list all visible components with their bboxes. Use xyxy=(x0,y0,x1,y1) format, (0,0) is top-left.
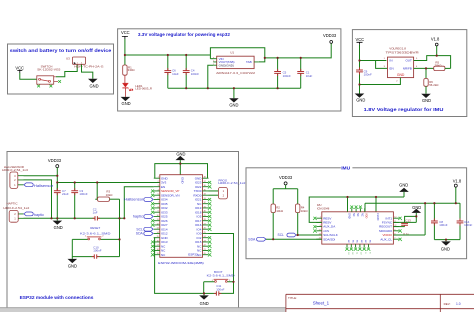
svg-text:GND: GND xyxy=(54,225,63,230)
capacitor C10 100nF xyxy=(72,245,119,258)
connector P3 PROG xyxy=(218,179,245,199)
svg-text:TPS73633DBVR: TPS73633DBVR xyxy=(386,50,420,54)
switch SW1 SK-12D02-VG5 xyxy=(37,65,61,85)
svg-text:NC: NC xyxy=(356,213,359,217)
pin stubs ESP32 left xyxy=(154,178,160,255)
svg-text:GND: GND xyxy=(441,247,450,252)
wire R4 down to SCL xyxy=(297,213,299,235)
svg-text:GND: GND xyxy=(348,213,351,219)
wire GND rail (haptic pin1 to C2) xyxy=(24,217,96,219)
no-connect X marks IMU left xyxy=(313,217,317,233)
net label Hallsensor (connector side) xyxy=(24,183,54,188)
svg-text:GND: GND xyxy=(89,84,98,89)
svg-text:NC: NC xyxy=(364,240,366,244)
svg-text:GND(GND): GND(GND) xyxy=(219,63,234,67)
svg-text:NC: NC xyxy=(352,213,355,217)
svg-text:1uF: 1uF xyxy=(93,211,98,215)
svg-text:SK-12D02-VG5: SK-12D02-VG5 xyxy=(37,67,61,71)
wire VIN stub link xyxy=(210,58,213,60)
wire BOOT left to GND xyxy=(203,282,205,294)
svg-text:100nF: 100nF xyxy=(464,223,472,227)
wire VCC to switch pin1 xyxy=(20,73,37,79)
wire R6 drop xyxy=(425,68,427,78)
ground (1.8V reg left) xyxy=(355,94,366,103)
capacitor C14 100nF xyxy=(457,203,473,239)
wire GND drop (3.3V reg) xyxy=(233,88,235,98)
svg-text:Hallsensor: Hallsensor xyxy=(34,184,54,188)
junction dots (IMU) xyxy=(272,238,274,240)
svg-text:1.8V Voltage regulator for IMU: 1.8V Voltage regulator for IMU xyxy=(364,107,444,113)
svg-text:10kΩ: 10kΩ xyxy=(301,209,309,213)
svg-text:HDR-F-2.54_1x2: HDR-F-2.54_1x2 xyxy=(218,181,245,185)
wire C10 right up to EN vertical xyxy=(119,239,121,256)
net label SDA (chip side) xyxy=(136,232,153,236)
svg-text:GND: GND xyxy=(176,152,185,157)
svg-text:VDD33: VDD33 xyxy=(48,158,62,163)
resistor R3 10k xyxy=(95,182,119,201)
capacitor C11 100nF xyxy=(204,284,225,295)
svg-text:10uF: 10uF xyxy=(306,74,313,78)
wire REGOUT to C13 xyxy=(393,226,404,228)
wire input rail to IN xyxy=(360,60,387,62)
power flag VCC (3.3V reg) xyxy=(121,30,130,39)
svg-text:3.3V voltage regulator for pow: 3.3V voltage regulator for powering esp3… xyxy=(138,32,230,38)
MCU module U2 ESP32-WROOM-32E xyxy=(158,175,204,266)
no-connect X marks under switch xyxy=(37,80,61,87)
wire bottom rail (3.3V reg) xyxy=(168,87,301,89)
wire battery pin2 to GND xyxy=(82,65,93,79)
svg-text:SDA: SDA xyxy=(136,232,144,236)
svg-text:GND: GND xyxy=(412,205,421,210)
regulator U4 TPS73633DBVR xyxy=(384,46,420,82)
svg-text:VDD: VDD xyxy=(365,213,368,218)
ground (3.3V reg) xyxy=(229,98,239,107)
ground (under C8/C14) xyxy=(441,240,451,252)
connector P2 HAPTIC xyxy=(3,202,29,223)
svg-text:GND: GND xyxy=(397,73,405,77)
svg-text:56.2kΩ: 56.2kΩ xyxy=(429,83,439,87)
svg-text:100nF: 100nF xyxy=(191,72,199,76)
wire R6 to GND xyxy=(425,86,427,94)
net port V1.8 (1.8V reg) xyxy=(431,37,440,46)
svg-text:1.0: 1.0 xyxy=(456,302,461,306)
no-connect X marks IMU top xyxy=(350,206,362,209)
svg-text:SDA: SDA xyxy=(248,237,256,241)
wire V1.8 drop xyxy=(436,46,438,56)
wire NR/FB to R5/R6 junction xyxy=(414,67,434,69)
svg-text:GND: GND xyxy=(229,102,238,107)
section box: 3.3V regulator xyxy=(118,29,341,111)
svg-text:Sheet_1: Sheet_1 xyxy=(313,301,330,306)
ground (IMU GND2, flipped) xyxy=(412,205,422,213)
pin stubs ESP32 right xyxy=(203,178,209,255)
svg-text:IN: IN xyxy=(390,59,393,63)
svg-text:GND: GND xyxy=(68,263,77,268)
svg-text:22uF: 22uF xyxy=(62,192,69,196)
sheet edge grey bar xyxy=(0,308,474,312)
svg-text:EN: EN xyxy=(390,67,394,71)
pin stubs IMU top xyxy=(348,208,365,212)
resistor R4 10k xyxy=(296,204,309,213)
red component pin stubs on capacitors xyxy=(57,67,460,293)
section box: 1.8V regulator xyxy=(352,30,466,117)
pushbutton BOOT K2-3.6-6.1_SMD xyxy=(204,270,235,282)
svg-text:NC: NC xyxy=(360,240,362,244)
svg-text:LED-0603_R: LED-0603_R xyxy=(135,87,152,91)
capacitor C6 10uF xyxy=(164,55,179,88)
svg-text:IMU: IMU xyxy=(341,166,350,172)
ground (under LED1) xyxy=(121,97,131,106)
svg-text:100nF: 100nF xyxy=(364,73,372,77)
svg-text:HDR-F-2.54_1x3: HDR-F-2.54_1x3 xyxy=(2,168,28,172)
section box: IMU xyxy=(246,168,467,259)
svg-text:100nF: 100nF xyxy=(79,192,87,196)
connector P1 HALLSENSOR xyxy=(2,165,28,189)
svg-text:VDD33: VDD33 xyxy=(323,33,337,38)
svg-text:100nF: 100nF xyxy=(439,223,447,227)
svg-text:REV:: REV: xyxy=(444,302,451,306)
svg-text:CLKIN: CLKIN xyxy=(376,213,379,221)
wire SDA to chip xyxy=(266,238,322,240)
svg-text:AMS1117-3.3_C347222: AMS1117-3.3_C347222 xyxy=(216,71,255,75)
resistor R1 330 xyxy=(123,65,136,75)
no-connect X marks IMU right xyxy=(398,217,402,241)
svg-text:SCL: SCL xyxy=(278,233,284,237)
svg-text:SDA/SDI: SDA/SDI xyxy=(323,237,335,241)
wire VCC down to C9 and GND xyxy=(359,45,361,70)
net label haptic (connector side) xyxy=(24,212,45,217)
wire OUT up over to R5 right xyxy=(414,56,451,69)
resistor R6 56.2k xyxy=(424,79,439,88)
wire VDD33 down to rail xyxy=(56,168,58,191)
svg-text:10kΩ: 10kΩ xyxy=(106,193,114,197)
wire switch pin2 to battery connector pin1 xyxy=(56,65,77,77)
svg-text:U3: U3 xyxy=(66,57,70,61)
svg-text:K2-3.6-6.1_SMD: K2-3.6-6.1_SMD xyxy=(207,274,235,278)
svg-text:OUT: OUT xyxy=(405,59,412,63)
wire hall pin3 to VDD33 xyxy=(24,175,58,177)
junction dots (3.3V reg) xyxy=(124,54,302,89)
svg-text:GND: GND xyxy=(181,177,185,183)
regulator U1 AMS1117-3.3 xyxy=(213,51,255,75)
svg-text:haptic: haptic xyxy=(133,215,144,219)
LED LED1 LED-0603_R xyxy=(122,75,152,97)
battery connector U3 HDR-TC-PH-2A-G xyxy=(66,57,104,69)
svg-text:10uF: 10uF xyxy=(172,72,179,76)
wire SCL to chip xyxy=(296,234,322,236)
junction dots (1.8V reg) xyxy=(358,55,437,86)
ground (under R6) xyxy=(421,94,431,103)
wire U4 GND pin down-left xyxy=(360,78,401,85)
svg-text:haptic: haptic xyxy=(34,213,45,217)
net port VDD33 (3.3V reg) xyxy=(323,33,337,44)
wire RESET left to GND xyxy=(71,239,73,256)
wire R3 right drop to EN net xyxy=(119,199,121,239)
pin stubs IMU right xyxy=(393,218,399,239)
svg-text:U1: U1 xyxy=(230,51,234,55)
pin numbers ESP32 right xyxy=(204,177,206,256)
wire C9 bottom to GND left xyxy=(359,85,361,94)
svg-text:GND: GND xyxy=(122,101,131,106)
net port V1.8 (IMU) xyxy=(453,178,462,187)
wire BOOT right down xyxy=(219,282,233,294)
svg-text:NR/FB: NR/FB xyxy=(403,67,412,71)
pushbutton RESET K2-3.6-6.1_SMD xyxy=(72,226,119,240)
comment text: IMU xyxy=(341,165,353,172)
section box: switch and battery xyxy=(8,44,114,94)
wire GND row15 down to bottom xyxy=(154,238,204,294)
net label SCL (IMU) xyxy=(278,233,297,237)
resistor R2 10k xyxy=(271,204,284,213)
wire hall pin2 to GND rail xyxy=(24,180,52,218)
net label SCL (chip side) xyxy=(136,227,153,231)
capacitor C1 10uF xyxy=(297,58,312,88)
wire input rail xyxy=(125,54,210,56)
net port VDD33 (ESP32) xyxy=(48,158,62,168)
svg-text:NC: NC xyxy=(360,213,363,217)
wire GND loop over ESP32 top xyxy=(155,164,208,179)
svg-text:VCC: VCC xyxy=(121,30,130,35)
wire U1 GND pin drop xyxy=(208,65,214,88)
svg-text:ESP32-WROOM-32E(4MB): ESP32-WROOM-32E(4MB) xyxy=(158,261,204,265)
title block xyxy=(286,294,474,312)
no-connect X marks IMU bottom xyxy=(345,248,370,251)
ground (battery box) xyxy=(88,79,99,89)
ground (below C7) xyxy=(53,218,63,230)
capacitor C2 (series in EN/GND line) xyxy=(93,207,98,220)
wire V1.8 rail #2 xyxy=(365,187,460,235)
wire IO0 to BOOT xyxy=(209,233,234,281)
capacitor C9 100nF xyxy=(356,69,372,84)
svg-text:GND: GND xyxy=(399,183,408,188)
capacitor C7 22uF xyxy=(54,182,69,218)
capacitor C4 100nF xyxy=(183,55,199,88)
svg-text:V1.8: V1.8 xyxy=(431,37,440,42)
wire EN tie to input xyxy=(376,61,388,69)
svg-text:RESET: RESET xyxy=(90,226,100,230)
wire top GND pin drop xyxy=(347,197,349,212)
svg-text:NC: NC xyxy=(369,240,371,244)
svg-text:HDR-F-2.54_1x2: HDR-F-2.54_1x2 xyxy=(3,206,29,210)
wire top GND pin xyxy=(179,160,181,175)
svg-text:GND: GND xyxy=(356,98,365,103)
wire output rail to VDD33 xyxy=(265,43,331,58)
svg-text:TAB: TAB xyxy=(246,60,252,64)
wire VDD33 split to R2 R4 xyxy=(273,185,298,204)
net label haptic (chip side) xyxy=(133,215,153,219)
wire GND rail #1 to RESV row2 xyxy=(309,197,404,222)
wire FSYNC to GND2 xyxy=(393,213,416,223)
section box: ESP32 module xyxy=(7,152,239,309)
svg-text:NC: NC xyxy=(351,240,353,244)
pin stubs U1 xyxy=(213,59,258,65)
svg-text:ESP32 module with connections: ESP32 module with connections xyxy=(20,295,94,301)
svg-text:VCC: VCC xyxy=(15,65,24,70)
power flag VCC (battery box) xyxy=(15,65,24,73)
wire RXD0 to PROG pin2 xyxy=(209,194,219,196)
capacitor C13 0.1u xyxy=(401,216,416,235)
wire VDD33 rail to 3V3 pin xyxy=(57,181,160,183)
power flag VCC (1.8V reg) xyxy=(355,37,364,45)
svg-text:GND: GND xyxy=(200,301,209,306)
svg-text:ICM-20948: ICM-20948 xyxy=(317,207,330,210)
svg-text:V1.8: V1.8 xyxy=(453,178,462,183)
svg-text:C13: C13 xyxy=(405,218,411,222)
svg-text:100nF: 100nF xyxy=(216,287,224,291)
no-connect X marks ESP32 right xyxy=(208,181,212,256)
svg-text:10kΩ: 10kΩ xyxy=(276,209,284,213)
svg-text:VDD33: VDD33 xyxy=(279,175,293,180)
svg-text:GND: GND xyxy=(422,98,431,103)
junction dots (ESP32 section) xyxy=(56,175,58,177)
pin stubs IMU left xyxy=(316,218,322,239)
svg-text:HDR-TC-PH-2A-G: HDR-TC-PH-2A-G xyxy=(74,65,104,69)
svg-text:switch and battery to turn on/: switch and battery to turn on/off device xyxy=(10,48,112,54)
capacitor C8 100nF xyxy=(431,203,448,239)
net port VDD33 (IMU) xyxy=(279,175,293,185)
svg-text:VCC: VCC xyxy=(355,37,364,42)
ground (ESP32 top, flipped) xyxy=(176,152,186,161)
pin stubs IMU bottom xyxy=(347,244,369,248)
resistor R5 28k xyxy=(434,61,451,71)
svg-text:330Ω: 330Ω xyxy=(128,68,136,72)
wire VDDIO right xyxy=(393,234,425,236)
capacitor C3 100nF xyxy=(71,182,88,218)
pin numbers ESP32 left xyxy=(157,177,159,256)
wire TXD0 to PROG pin1 xyxy=(209,190,219,192)
wire top CLKIN pin drop xyxy=(375,197,377,212)
ground (reset) xyxy=(68,257,78,269)
IMU chip U5 ICM-20948 xyxy=(317,204,394,244)
svg-text:NC: NC xyxy=(356,240,358,244)
net label Hallsensor (chip side) xyxy=(124,198,153,202)
wire U1 input loop over top xyxy=(210,48,264,62)
svg-text:NC: NC xyxy=(347,240,349,244)
ground (boot) xyxy=(199,293,209,306)
pin numbers IMU left/right xyxy=(319,217,397,240)
no-connect X marks ESP32 left xyxy=(151,190,155,257)
wire EN net up to chip EN pin xyxy=(124,187,154,219)
wire VCC down to input rail xyxy=(124,39,126,65)
wire R2 down to SDA xyxy=(272,213,274,240)
svg-text:AUX_CL: AUX_CL xyxy=(380,237,392,241)
svg-text:100nF: 100nF xyxy=(93,249,101,253)
net label SDA (IMU) xyxy=(248,237,266,241)
svg-text:TITLE:: TITLE: xyxy=(288,296,297,300)
svg-text:100nF: 100nF xyxy=(283,74,291,78)
wire EN net horizontal xyxy=(97,217,124,219)
capacitor C5 100nF xyxy=(274,58,291,88)
ground (IMU rail1, flipped) xyxy=(399,183,409,197)
svg-text:Hallsensor: Hallsensor xyxy=(124,198,144,202)
wire bottom rail C8/C14 xyxy=(434,239,460,241)
